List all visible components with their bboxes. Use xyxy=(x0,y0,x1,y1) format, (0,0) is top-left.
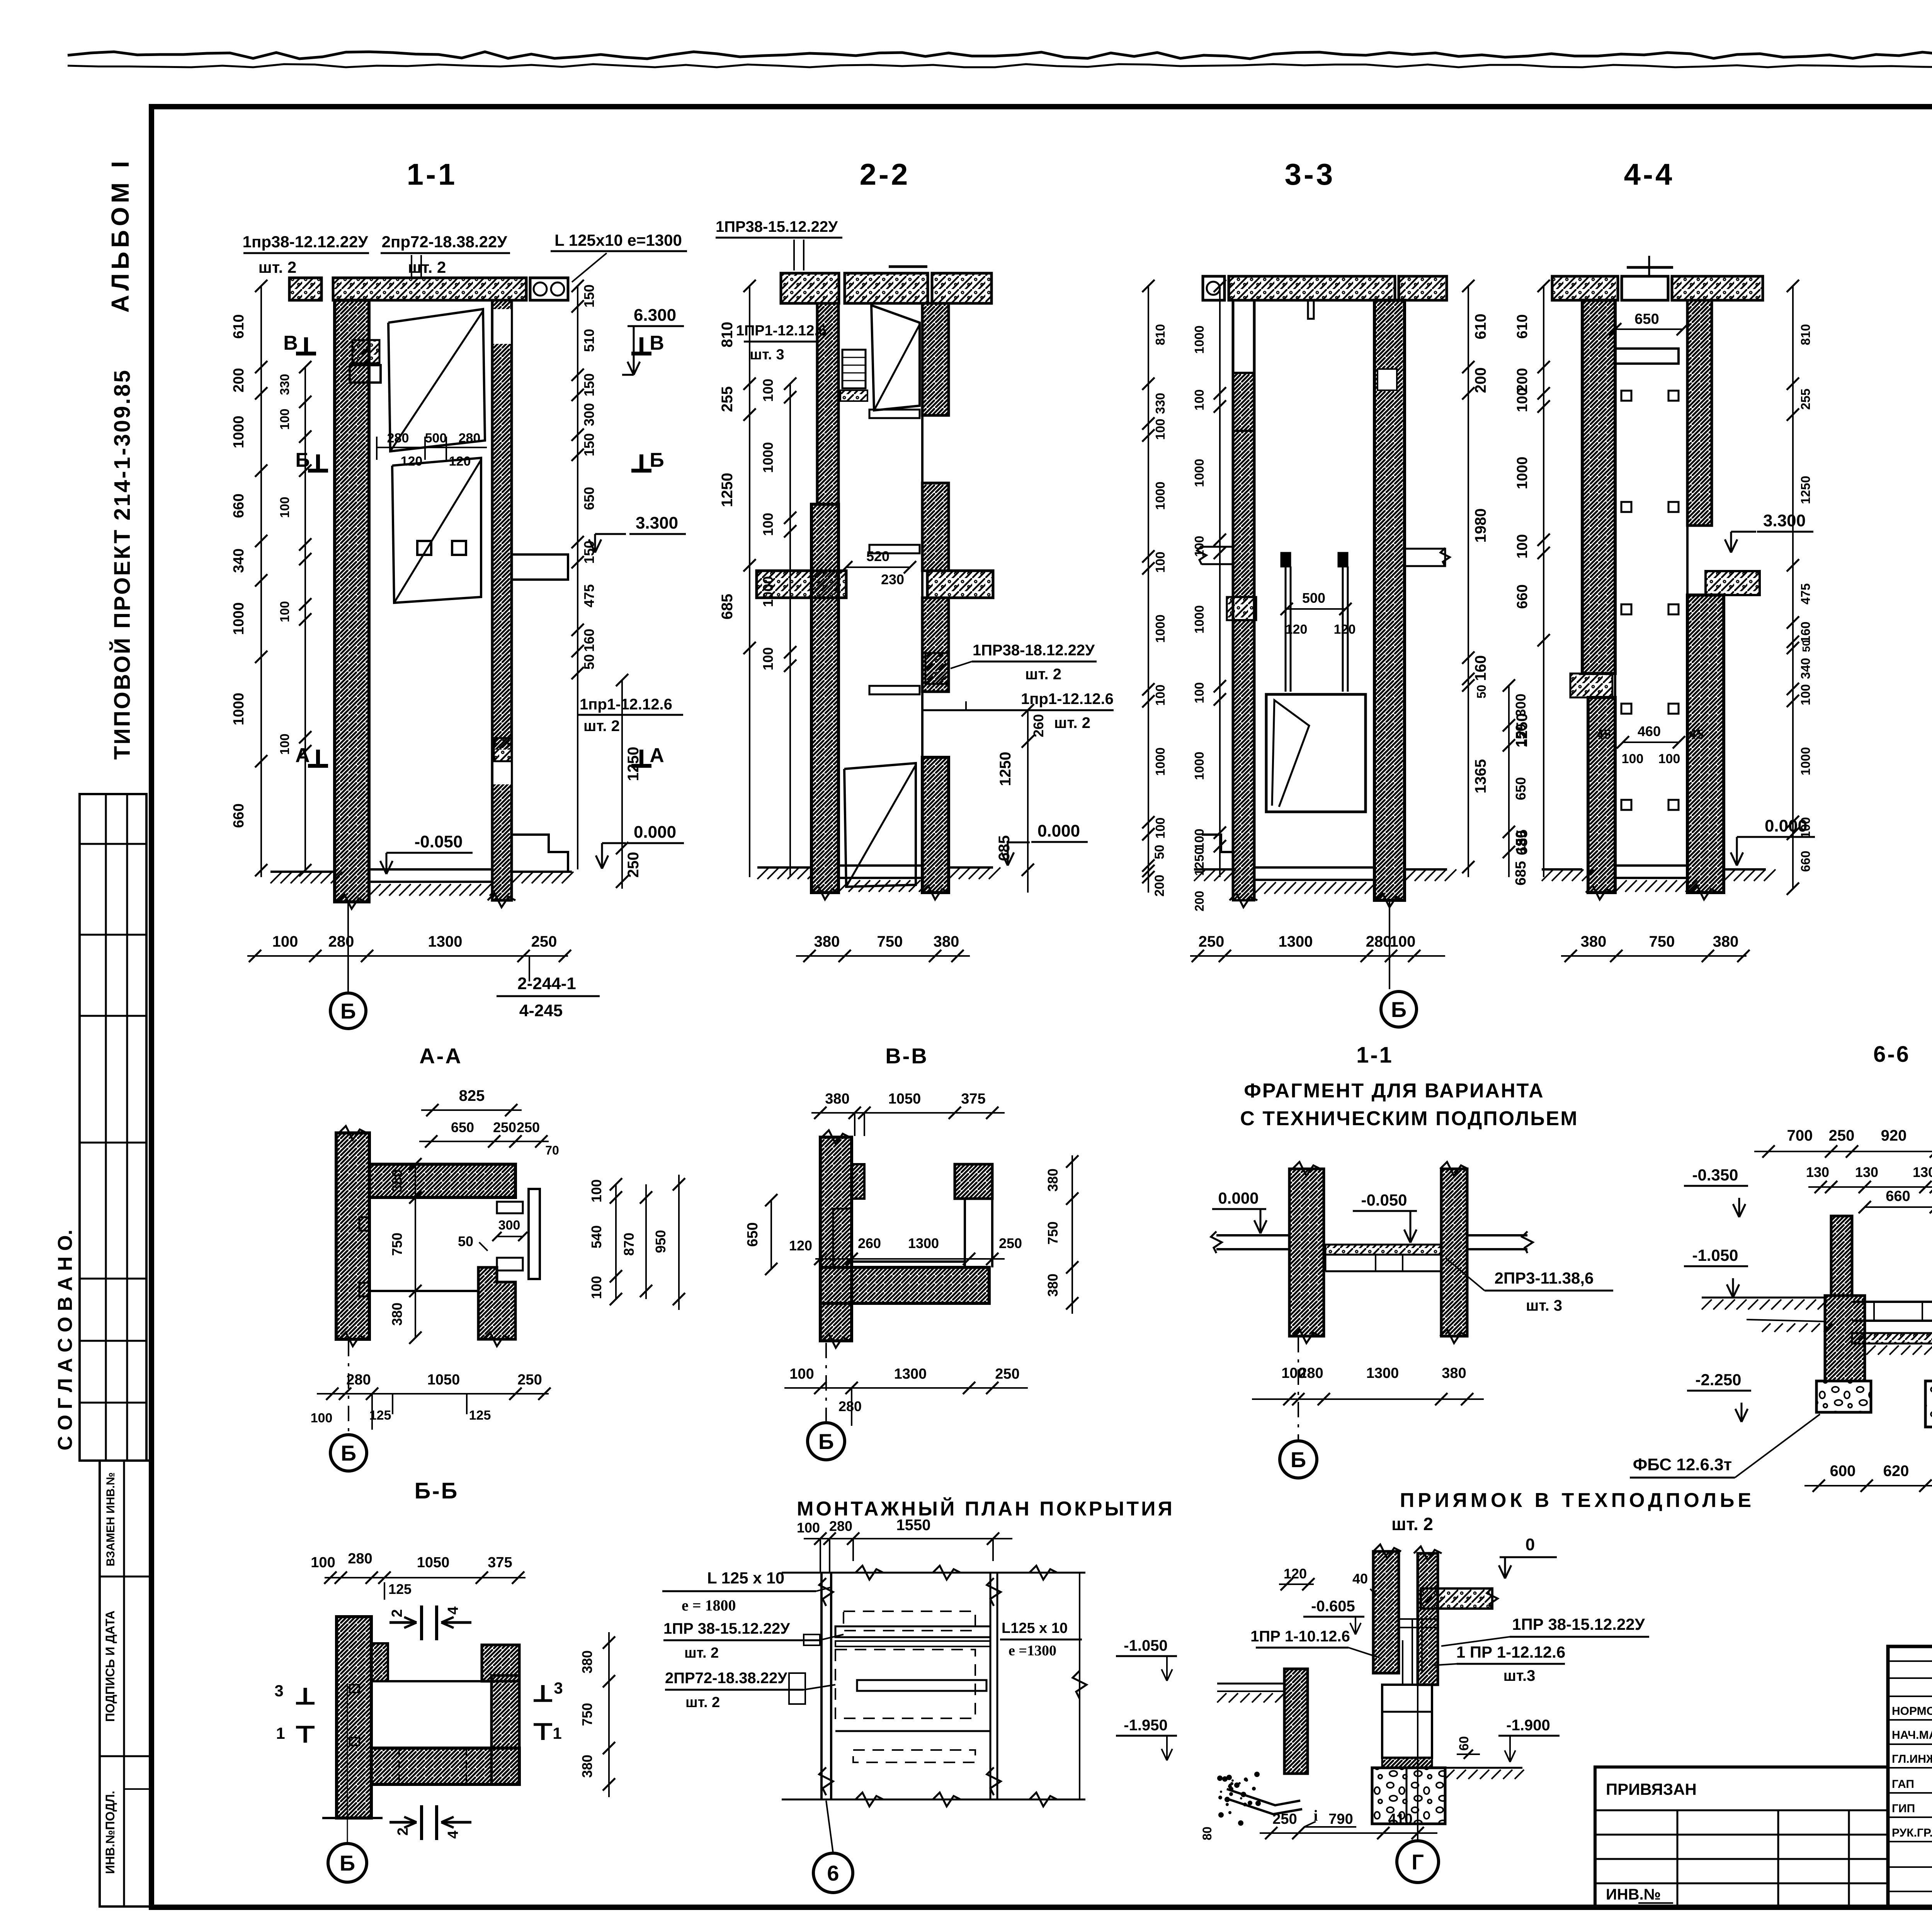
svg-text:260: 260 xyxy=(1031,714,1046,737)
svg-text:1050: 1050 xyxy=(417,1554,450,1571)
roof plan right wall lines xyxy=(990,1573,992,1799)
svg-text:610: 610 xyxy=(1514,314,1531,338)
section 3-3 right dim chain xyxy=(1468,286,1469,877)
svg-text:В: В xyxy=(650,332,664,354)
section 3-3 bottom dim line xyxy=(1190,955,1445,957)
svg-text:100: 100 xyxy=(760,379,776,402)
roof plan dashed panel top xyxy=(844,1611,975,1631)
priyamok footing with stones xyxy=(1372,1768,1445,1824)
svg-text:шт. 2: шт. 2 xyxy=(1391,1514,1433,1534)
section V-V axis circle B xyxy=(808,1423,845,1460)
svg-text:660: 660 xyxy=(1514,584,1531,609)
svg-text:685: 685 xyxy=(996,835,1013,861)
svg-text:Г: Г xyxy=(1412,1850,1424,1874)
svg-text:3.300: 3.300 xyxy=(1763,511,1806,530)
section V-V left dim 650 xyxy=(770,1200,772,1269)
svg-text:1300: 1300 xyxy=(1279,933,1313,950)
section 1-1 shaft inner lines xyxy=(368,300,370,902)
section 6-6 dims 130 xyxy=(1808,1186,1932,1188)
svg-text:100: 100 xyxy=(277,733,292,755)
section 4-4 interior bar xyxy=(1615,349,1679,364)
svg-text:45: 45 xyxy=(1689,727,1704,742)
svg-text:1000: 1000 xyxy=(760,442,776,473)
svg-text:1000: 1000 xyxy=(1514,457,1531,490)
svg-text:250: 250 xyxy=(517,1372,542,1388)
svg-text:1-1: 1-1 xyxy=(407,157,457,191)
svg-text:700: 700 xyxy=(1787,1127,1813,1144)
svg-text:250: 250 xyxy=(1829,1127,1855,1144)
section B-B right rotated dims xyxy=(608,1632,610,1797)
svg-text:100: 100 xyxy=(1798,817,1813,838)
svg-text:375: 375 xyxy=(488,1554,512,1571)
section 4-4 right dim chain xyxy=(1792,286,1794,889)
svg-text:100: 100 xyxy=(1153,684,1167,706)
section 1-1 pit floor xyxy=(369,868,492,871)
section 2-2 mid floor slab right xyxy=(927,571,993,598)
svg-text:790: 790 xyxy=(1328,1811,1353,1827)
roof plan right dim line xyxy=(1079,1573,1080,1799)
section 1-1 door leaf upper xyxy=(388,309,485,451)
svg-text:60: 60 xyxy=(1457,1736,1471,1751)
svg-text:650: 650 xyxy=(581,487,597,510)
section 3-3 axis line xyxy=(1389,900,1390,989)
svg-text:1250: 1250 xyxy=(719,473,736,507)
svg-text:460: 460 xyxy=(1638,723,1661,739)
svg-text:1-1: 1-1 xyxy=(1356,1043,1393,1068)
svg-text:1пр1-12.12.6: 1пр1-12.12.6 xyxy=(580,696,672,713)
svg-text:ИНВ.№: ИНВ.№ xyxy=(1606,1886,1661,1903)
svg-text:3: 3 xyxy=(554,1679,563,1697)
svg-text:200: 200 xyxy=(1152,875,1167,897)
svg-text:1ПР38-18.12.22У: 1ПР38-18.12.22У xyxy=(973,642,1095,659)
svg-text:475: 475 xyxy=(581,584,597,607)
svg-text:1550: 1550 xyxy=(896,1517,931,1534)
svg-text:шт. 2: шт. 2 xyxy=(259,258,297,276)
svg-text:шт. 2: шт. 2 xyxy=(408,258,446,276)
svg-text:100: 100 xyxy=(1153,418,1167,440)
section 3-3 base breaks xyxy=(1230,893,1257,907)
svg-text:1300: 1300 xyxy=(894,1366,927,1382)
section B-B top dims xyxy=(325,1577,526,1578)
section 6-6 bottom dim line xyxy=(1804,1485,1932,1486)
priyamok bottom left concrete spill xyxy=(1217,1772,1261,1826)
svg-text:500: 500 xyxy=(1302,590,1325,606)
priyamok ground right of footing xyxy=(1445,1767,1522,1769)
section A-A left wall xyxy=(336,1133,369,1339)
svg-text:1000: 1000 xyxy=(1192,752,1206,780)
svg-text:410: 410 xyxy=(1388,1811,1412,1827)
section 1-1 left dim chain outer xyxy=(260,286,262,877)
svg-text:685: 685 xyxy=(719,594,736,620)
svg-text:920: 920 xyxy=(1881,1127,1907,1144)
svg-text:750: 750 xyxy=(579,1703,595,1726)
svg-text:380: 380 xyxy=(1442,1365,1466,1381)
svg-text:250: 250 xyxy=(531,933,557,950)
svg-text:L 125 x 10: L 125 x 10 xyxy=(707,1569,784,1587)
svg-text:100: 100 xyxy=(760,647,776,670)
section 1-1 guide rail squares xyxy=(417,541,431,555)
section V-V bottom bar xyxy=(820,1267,989,1303)
section 1-1 bottom dim line xyxy=(247,955,568,957)
svg-text:40: 40 xyxy=(1352,1571,1368,1587)
svg-text:-0.605: -0.605 xyxy=(1311,1598,1355,1615)
svg-text:ВЗАМЕН ИНВ.№: ВЗАМЕН ИНВ.№ xyxy=(104,1472,117,1566)
svg-text:380: 380 xyxy=(579,1650,595,1673)
svg-text:1000: 1000 xyxy=(231,693,247,726)
section 2-2 top slab xyxy=(781,273,839,303)
svg-text:100: 100 xyxy=(311,1554,335,1571)
fragment axis circle B xyxy=(1280,1441,1317,1478)
section 1-1 axis line xyxy=(347,902,349,992)
svg-text:С О Г Л А С О В А Н О.: С О Г Л А С О В А Н О. xyxy=(54,1230,77,1451)
svg-text:340: 340 xyxy=(231,548,247,573)
roof plan axis circle 6 xyxy=(813,1853,853,1893)
svg-text:650: 650 xyxy=(1634,311,1659,327)
svg-text:ПОДПИСЬ И ДАТА: ПОДПИСЬ И ДАТА xyxy=(103,1611,117,1722)
svg-text:3: 3 xyxy=(274,1682,283,1700)
svg-text:200: 200 xyxy=(1192,891,1206,911)
section B-B axis line xyxy=(347,1685,348,1842)
priyamok wall base slab xyxy=(1382,1758,1432,1768)
svg-text:100: 100 xyxy=(1192,536,1206,557)
svg-text:-1.050: -1.050 xyxy=(1124,1637,1167,1654)
svg-text:500: 500 xyxy=(425,431,447,446)
priyamok level 0 mark xyxy=(1500,1556,1557,1558)
svg-text:Б: Б xyxy=(340,1851,355,1875)
svg-text:АЛЬБОМ I: АЛЬБОМ I xyxy=(106,157,134,313)
svg-text:50: 50 xyxy=(458,1233,473,1249)
svg-text:-0.050: -0.050 xyxy=(1361,1191,1407,1209)
svg-text:1пр1-12.12.6: 1пр1-12.12.6 xyxy=(1021,690,1114,707)
svg-text:4-4: 4-4 xyxy=(1624,157,1675,191)
section 3-3 elevator car xyxy=(1266,694,1366,812)
svg-text:100: 100 xyxy=(1153,817,1167,838)
section 2-2 left wall lower xyxy=(811,504,838,893)
section A-A dim 825 xyxy=(421,1109,522,1111)
section V-V interior niche lines xyxy=(833,1209,852,1267)
section 1-1 top slab xyxy=(289,278,321,300)
section B-B clamp mark top xyxy=(389,1621,417,1624)
svg-text:660: 660 xyxy=(231,803,247,828)
svg-text:810: 810 xyxy=(719,322,736,348)
section B-B base line xyxy=(322,1817,383,1819)
svg-text:Б: Б xyxy=(341,1441,356,1465)
svg-text:2: 2 xyxy=(389,1609,405,1617)
svg-text:380: 380 xyxy=(389,1169,405,1192)
svg-text:50: 50 xyxy=(1152,845,1167,859)
section A-A top bar xyxy=(369,1164,515,1197)
torn paper top edge wavy line xyxy=(68,52,1932,59)
svg-text:100: 100 xyxy=(588,1179,604,1202)
section 2-2 right lower chain xyxy=(1148,834,1149,893)
svg-text:750: 750 xyxy=(1045,1221,1061,1245)
svg-text:120: 120 xyxy=(1284,1566,1307,1582)
section 2-2 block 1pr38-18 right xyxy=(925,653,949,684)
svg-text:100: 100 xyxy=(272,933,298,950)
svg-text:1ПР 38-15.12.22У: 1ПР 38-15.12.22У xyxy=(663,1620,790,1637)
svg-text:160: 160 xyxy=(581,629,597,652)
svg-text:А-А: А-А xyxy=(419,1044,463,1068)
svg-text:300: 300 xyxy=(498,1218,520,1233)
svg-text:150: 150 xyxy=(581,373,597,396)
section 4-4 guide squares xyxy=(1621,391,1631,401)
priyamok bottom dim line xyxy=(1260,1832,1437,1834)
svg-text:280: 280 xyxy=(829,1518,852,1534)
roof plan dashed panel bottom xyxy=(853,1750,975,1762)
section 1-1 left dim chain inner xyxy=(304,367,306,870)
section 2-2 pit floor lines xyxy=(838,864,922,867)
section 2-2 right wall segments xyxy=(922,303,949,415)
svg-text:ГИП: ГИП xyxy=(1892,1802,1915,1815)
left margin bottom stamp strip xyxy=(100,1461,151,1906)
section V-V axis dash xyxy=(825,1343,827,1421)
section A-A axis circle B xyxy=(330,1435,367,1471)
svg-text:1050: 1050 xyxy=(427,1372,460,1388)
svg-text:660: 660 xyxy=(1798,850,1813,872)
svg-text:1: 1 xyxy=(276,1724,285,1742)
section A-A bottom dims xyxy=(317,1393,549,1395)
svg-text:50: 50 xyxy=(581,654,597,670)
svg-text:280: 280 xyxy=(348,1551,372,1567)
svg-text:520: 520 xyxy=(866,548,889,564)
priyamok axis circle G xyxy=(1417,1685,1418,1841)
svg-text:100: 100 xyxy=(1798,684,1813,705)
svg-text:300: 300 xyxy=(581,403,597,426)
svg-text:100: 100 xyxy=(311,1411,333,1425)
svg-text:280: 280 xyxy=(1299,1365,1323,1381)
svg-text:380: 380 xyxy=(1045,1168,1061,1192)
svg-text:ИНВ.№ПОДЛ.: ИНВ.№ПОДЛ. xyxy=(103,1791,117,1874)
section 2-2 left inner chain xyxy=(789,384,791,877)
svg-text:380: 380 xyxy=(825,1091,849,1107)
section 1-1 right dim chain xyxy=(577,286,578,869)
svg-text:255: 255 xyxy=(719,386,736,412)
svg-text:Б: Б xyxy=(295,449,310,471)
section A-A inner lines xyxy=(368,1197,371,1339)
svg-text:100: 100 xyxy=(789,1366,814,1382)
svg-text:810: 810 xyxy=(1798,324,1813,345)
section 1-1 door leaf lower xyxy=(392,458,481,603)
svg-text:Б: Б xyxy=(340,999,356,1023)
svg-text:100: 100 xyxy=(1153,551,1167,573)
svg-text:610: 610 xyxy=(231,314,247,338)
svg-text:ГЛ.ИНЖ.М.: ГЛ.ИНЖ.М. xyxy=(1892,1753,1932,1765)
svg-text:А: А xyxy=(295,744,310,767)
svg-text:685: 685 xyxy=(1514,830,1531,855)
svg-text:шт. 3: шт. 3 xyxy=(750,347,784,363)
fragment right wall xyxy=(1441,1169,1467,1336)
section 4-4 right wall xyxy=(1687,300,1712,526)
svg-text:1ПР 1-10.12.6: 1ПР 1-10.12.6 xyxy=(1250,1628,1350,1645)
section 6-6 right footing xyxy=(1925,1381,1932,1427)
roof plan top and bottom edges xyxy=(782,1572,1085,1574)
svg-text:250: 250 xyxy=(1272,1811,1297,1827)
svg-text:0: 0 xyxy=(1526,1535,1535,1554)
title block privyazan box xyxy=(1595,1767,1888,1906)
svg-text:1ПР 38-15.12.22У: 1ПР 38-15.12.22У xyxy=(1512,1615,1645,1633)
section 4-4 ground hatch xyxy=(1542,869,1553,881)
section V-V right wall white column xyxy=(964,1199,966,1267)
section B-B inner lines xyxy=(370,1617,372,1643)
svg-text:380: 380 xyxy=(814,933,840,950)
section V-V left wall pilaster xyxy=(852,1164,864,1199)
svg-text:475: 475 xyxy=(1798,583,1813,604)
svg-text:4: 4 xyxy=(445,1830,461,1838)
svg-text:С ТЕХНИЧЕСКИМ ПОДПОЛЬЕМ: С ТЕХНИЧЕСКИМ ПОДПОЛЬЕМ xyxy=(1240,1107,1578,1130)
svg-text:120: 120 xyxy=(401,454,423,469)
section V-V left wall xyxy=(820,1137,852,1341)
svg-text:шт. 2: шт. 2 xyxy=(685,1694,720,1711)
svg-text:100: 100 xyxy=(1514,534,1531,558)
svg-text:1250: 1250 xyxy=(1514,713,1531,748)
fragment left wall xyxy=(1289,1169,1324,1336)
svg-text:50: 50 xyxy=(1800,640,1812,652)
svg-text:НОРМОКОНТР: НОРМОКОНТР xyxy=(1892,1705,1932,1718)
svg-text:1000: 1000 xyxy=(1192,605,1206,633)
svg-text:130: 130 xyxy=(1855,1164,1878,1180)
svg-text:-2.250: -2.250 xyxy=(1695,1371,1741,1389)
section 1-1 pit step right xyxy=(512,835,568,872)
svg-text:120: 120 xyxy=(449,454,471,469)
fragment bottom dims xyxy=(1252,1398,1484,1400)
priyamok wall lower column xyxy=(1382,1685,1432,1758)
svg-text:А: А xyxy=(650,744,664,767)
section 1-1 landing stub right xyxy=(512,554,568,580)
section 1-1 right wall xyxy=(492,300,512,900)
section 2-2 door lower xyxy=(844,763,916,887)
svg-text:650: 650 xyxy=(1513,777,1529,800)
priyamok drain pipe xyxy=(1227,1789,1300,1805)
svg-text:150: 150 xyxy=(581,284,597,308)
svg-text:шт.3: шт.3 xyxy=(1503,1667,1536,1684)
svg-text:100: 100 xyxy=(1658,752,1680,766)
section 1-1 machine blocks on wall xyxy=(352,340,379,363)
svg-text:130: 130 xyxy=(1806,1164,1829,1180)
svg-text:280: 280 xyxy=(838,1398,862,1414)
svg-text:1250: 1250 xyxy=(997,752,1014,786)
svg-text:80: 80 xyxy=(1200,1827,1214,1840)
svg-text:1: 1 xyxy=(553,1724,561,1742)
svg-text:шт. 2: шт. 2 xyxy=(1025,666,1061,683)
section 3-3 right wall xyxy=(1374,300,1405,900)
fragment axis dash xyxy=(1298,1337,1299,1440)
section 3-3 top slab xyxy=(1203,276,1225,300)
svg-text:870: 870 xyxy=(621,1233,637,1256)
svg-text:РУК.ГР.ИНЖ.: РУК.ГР.ИНЖ. xyxy=(1892,1827,1932,1839)
priyamok left ground lines xyxy=(1217,1683,1284,1685)
svg-text:ГАП: ГАП xyxy=(1892,1778,1914,1791)
section 2-2 interior ledges xyxy=(869,410,920,418)
section 2-2 lintel blocks left interior xyxy=(842,350,866,388)
svg-text:2-2: 2-2 xyxy=(860,157,910,191)
svg-text:250: 250 xyxy=(1199,933,1225,950)
svg-text:2ПР72-18.38.22У: 2ПР72-18.38.22У xyxy=(665,1670,787,1687)
section A-A left rotated dims xyxy=(415,1164,416,1338)
section 4-4 left wall xyxy=(1582,300,1615,673)
svg-text:МОНТАЖНЫЙ ПЛАН ПОКРЫТИЯ: МОНТАЖНЫЙ ПЛАН ПОКРЫТИЯ xyxy=(797,1497,1175,1520)
svg-text:1250: 1250 xyxy=(1192,847,1206,876)
section B-B wall notches xyxy=(350,1685,359,1692)
svg-text:L125 x 10: L125 x 10 xyxy=(1002,1620,1068,1636)
svg-text:В-В: В-В xyxy=(885,1044,929,1068)
svg-text:1000: 1000 xyxy=(1192,459,1206,487)
svg-text:1000: 1000 xyxy=(1798,747,1813,775)
svg-text:В: В xyxy=(283,332,298,354)
svg-text:750: 750 xyxy=(389,1233,405,1256)
svg-text:160: 160 xyxy=(1798,621,1813,643)
svg-text:510: 510 xyxy=(581,329,597,352)
svg-text:1000: 1000 xyxy=(1153,614,1167,643)
section 4-4 base breaks xyxy=(1586,886,1614,900)
svg-text:810: 810 xyxy=(1153,324,1167,345)
svg-text:750: 750 xyxy=(1649,933,1675,950)
svg-text:950: 950 xyxy=(653,1230,668,1253)
svg-text:1980: 1980 xyxy=(1472,509,1489,543)
svg-text:Б: Б xyxy=(1391,997,1406,1022)
svg-text:2-244-1: 2-244-1 xyxy=(517,974,576,993)
svg-text:100: 100 xyxy=(1622,752,1644,766)
section B-B left wall pilaster xyxy=(371,1643,388,1681)
svg-text:330: 330 xyxy=(1153,393,1167,414)
svg-text:1250: 1250 xyxy=(1798,476,1813,504)
svg-text:НАЧ.МАСТ.1: НАЧ.МАСТ.1 xyxy=(1892,1729,1932,1742)
svg-text:100: 100 xyxy=(277,408,292,430)
fragment right floor slab xyxy=(1467,1234,1527,1236)
svg-text:-1.950: -1.950 xyxy=(1124,1717,1167,1734)
section V-V bottom dims xyxy=(784,1387,1028,1389)
section B-B axis circle B xyxy=(328,1844,367,1882)
section 2-2 ground hatch xyxy=(757,867,769,879)
section 2-2 mid floor slab left xyxy=(757,571,846,598)
svg-text:100: 100 xyxy=(1192,389,1206,410)
section B-B left wall xyxy=(337,1617,371,1818)
svg-text:660: 660 xyxy=(231,493,247,518)
svg-text:120: 120 xyxy=(789,1238,812,1253)
svg-text:1000: 1000 xyxy=(231,416,247,449)
svg-text:2ПР3-11.38,6: 2ПР3-11.38,6 xyxy=(1495,1269,1594,1287)
svg-text:380: 380 xyxy=(1045,1274,1061,1297)
svg-text:250: 250 xyxy=(625,852,642,878)
section 6-6 left wall lower xyxy=(1825,1296,1865,1381)
svg-text:0.000: 0.000 xyxy=(634,823,676,842)
section B-B bottom bar xyxy=(371,1748,519,1784)
svg-text:3-3: 3-3 xyxy=(1285,157,1335,191)
svg-text:380: 380 xyxy=(579,1755,595,1778)
svg-text:1050: 1050 xyxy=(888,1091,921,1107)
svg-text:650: 650 xyxy=(451,1119,474,1135)
svg-text:280: 280 xyxy=(328,933,354,950)
section B-B right wall xyxy=(492,1675,519,1784)
fragment left floor slab xyxy=(1216,1234,1289,1236)
svg-text:650: 650 xyxy=(745,1222,761,1247)
section 6-6 slab between walls xyxy=(1852,1301,1932,1303)
svg-text:шт. 2: шт. 2 xyxy=(583,718,620,735)
svg-text:120: 120 xyxy=(1334,622,1356,637)
roof plan solid slab rows xyxy=(835,1626,990,1637)
svg-text:1 ПР 1-12.12.6: 1 ПР 1-12.12.6 xyxy=(1456,1643,1565,1661)
svg-text:-1.900: -1.900 xyxy=(1506,1717,1550,1734)
section A-A door frame detail xyxy=(529,1189,540,1279)
section 1-1 right lower dim 1250 250 xyxy=(621,680,623,889)
section 3-3 left dim chain xyxy=(1219,286,1221,877)
section A-A bottom step piece xyxy=(478,1267,515,1339)
section B-B dashed joints in bar xyxy=(398,1748,400,1784)
section 3-3 ground hatch xyxy=(1194,869,1206,881)
section 1-1 ground hatch xyxy=(270,872,282,883)
section 6-6 left wall upper xyxy=(1831,1216,1852,1296)
left margin approval table xyxy=(80,794,146,1461)
section 4-4 bottom dim line xyxy=(1561,955,1747,957)
